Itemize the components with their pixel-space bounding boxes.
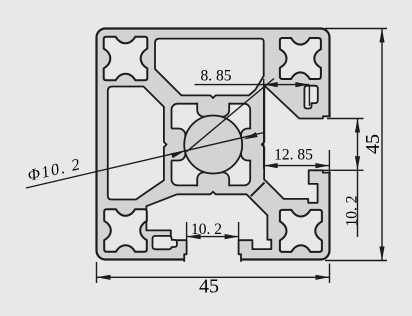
clover screw channel top-right [280, 38, 321, 79]
top chamber [155, 39, 264, 98]
dim: right 45 [325, 29, 387, 261]
svg-text:10. 2: 10. 2 [344, 196, 361, 227]
left chamber [108, 87, 167, 200]
svg-text:12. 85: 12. 85 [274, 147, 313, 164]
clover screw channel bottom-right [280, 210, 322, 252]
core arm rot0 [197, 101, 229, 117]
core arm rot180 [197, 172, 229, 188]
svg-text:10. 2: 10. 2 [191, 221, 222, 238]
svg-text:45: 45 [199, 275, 219, 297]
core cavity [172, 104, 251, 186]
small chamber left of bottom slot (in BL lip) [153, 236, 177, 249]
right cavity with T-slot opening [262, 86, 332, 203]
dim: 12.85 [264, 150, 330, 172]
core BR corner chamfer [251, 183, 265, 197]
wall patch right of core cavity [251, 126, 257, 163]
center bore circle [184, 116, 242, 174]
dim: 8.85 [195, 79, 310, 169]
dim: bottom 10.2 [187, 222, 239, 240]
svg-text:8. 85: 8. 85 [201, 68, 232, 85]
core arm rot270 [170, 129, 186, 161]
small chamber above right slot (under TR block) [304, 86, 317, 109]
bottom cavity with T-slot opening [146, 192, 271, 263]
clover screw channel bottom-left [104, 209, 147, 252]
dim: leader Phi 10.2 [26, 79, 274, 189]
profile body outer 45x45 [97, 29, 330, 260]
clover screw channel top-left [104, 37, 148, 81]
core arm rot90 [241, 129, 257, 161]
svg-text:45: 45 [362, 134, 384, 154]
dim: bottom 45 [97, 262, 330, 283]
dim: right 10.2 [311, 119, 364, 238]
